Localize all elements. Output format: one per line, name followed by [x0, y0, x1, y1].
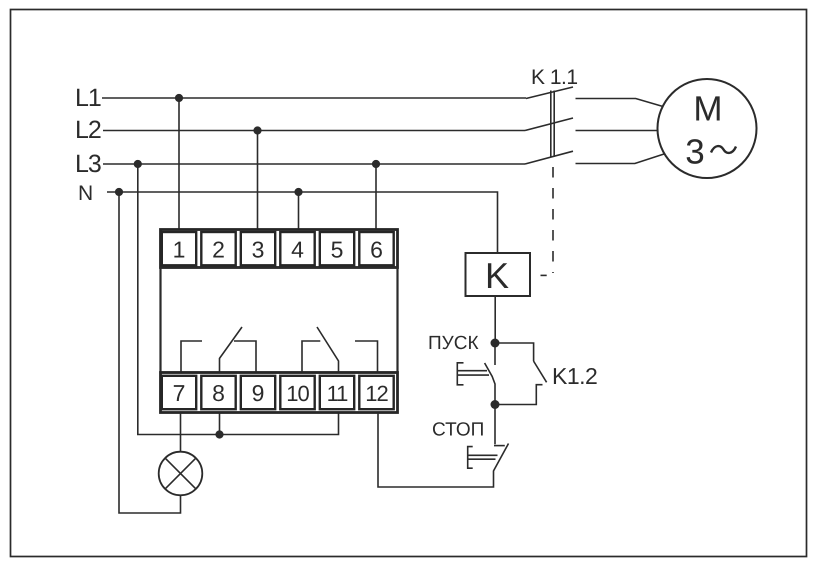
wire drop N to terminal 4	[298, 192, 300, 229]
svg-text:10: 10	[286, 381, 309, 406]
relay contact arm terminal 11	[317, 327, 339, 372]
button START plunger lines	[457, 371, 489, 375]
svg-text:K 1.1: K 1.1	[531, 66, 578, 89]
terminal 12	[359, 376, 393, 409]
relay terminal row top box	[161, 230, 398, 268]
wire L2 to motor	[576, 130, 658, 132]
relay contact arm terminal 8	[220, 327, 243, 372]
button STOP cap bracket	[468, 447, 473, 469]
wire terminal 12 to stop button	[378, 413, 494, 487]
terminal 7	[162, 376, 196, 409]
node junction dot terminal 8 bus	[215, 430, 223, 438]
relay contact bracket terminal 9	[234, 341, 256, 372]
wire L3 to motor	[576, 154, 665, 164]
svg-text:1: 1	[173, 237, 186, 263]
svg-text:4: 4	[291, 237, 304, 263]
terminal 4	[280, 232, 314, 265]
button START cap bracket	[457, 363, 463, 385]
svg-text:L3: L3	[75, 150, 101, 178]
svg-text:СТОП: СТОП	[432, 420, 484, 441]
svg-text:N: N	[78, 182, 93, 205]
svg-text:3: 3	[252, 237, 265, 263]
contact K1.1 link dashed to coil	[552, 167, 554, 273]
svg-text:2: 2	[212, 237, 225, 263]
relay contact bracket terminal 10	[302, 341, 320, 372]
coil K box	[466, 253, 531, 296]
dashed link horizontal dash at coil	[541, 274, 547, 276]
contact K1.1 mechanical link bars	[551, 91, 554, 157]
svg-text:8: 8	[212, 380, 225, 406]
relay contact bracket terminal 7	[181, 341, 202, 372]
wire L3 left branch down to terminal 11	[138, 164, 339, 435]
svg-text:ПУСК: ПУСК	[428, 333, 479, 354]
wire L1 to motor	[576, 99, 664, 107]
svg-text:K: K	[485, 255, 509, 296]
svg-text:5: 5	[331, 237, 344, 263]
wire drop L3 to terminal 6	[375, 164, 377, 229]
terminal 9	[241, 376, 275, 409]
node junction dot L3 left	[134, 160, 142, 168]
button START upper lead	[494, 343, 496, 365]
wire drop L1 to terminal 1	[178, 98, 180, 229]
wire N rail to coil K	[107, 192, 498, 253]
svg-text:M: M	[693, 89, 722, 128]
contact K1.1 pole L1 arm	[526, 87, 573, 99]
wire L1 rail	[102, 97, 526, 99]
node start-button bottom junction	[491, 400, 500, 409]
node junction dot N/terminal4	[294, 188, 302, 196]
relay terminal row bottom box	[161, 373, 398, 413]
svg-text:7: 7	[173, 380, 186, 406]
terminal 8	[201, 376, 235, 409]
button STOP plunger lines	[468, 455, 498, 459]
terminal 10	[280, 376, 314, 409]
wire terminal 7 to lamp	[180, 413, 182, 452]
contact K1.2 lower lead	[495, 385, 543, 405]
svg-text:3: 3	[685, 133, 704, 172]
contact K1.1 pole L3 arm	[525, 151, 573, 164]
terminal 5	[320, 232, 354, 265]
node junction dot L2/terminal3	[253, 126, 261, 134]
button STOP fixed contact seat	[494, 445, 505, 447]
svg-text:L2: L2	[75, 116, 101, 144]
motor M 3~	[658, 79, 757, 178]
terminal 3	[241, 232, 275, 265]
terminal 2	[201, 232, 235, 265]
wire K1.2 branch top	[495, 343, 534, 361]
terminal 11	[320, 376, 354, 409]
svg-text:L1: L1	[75, 84, 101, 112]
contact K1.2 arm	[534, 361, 547, 382]
node junction dot L3/terminal6	[372, 160, 380, 168]
contact K1.1 pole L2 arm	[525, 118, 573, 131]
wire L2 rail	[103, 130, 525, 132]
terminal 1	[162, 232, 196, 265]
wire L3 rail	[103, 163, 525, 165]
svg-text:12: 12	[365, 381, 388, 406]
button STOP moving arm	[494, 444, 509, 471]
wire start to stop	[494, 405, 496, 445]
lamp HL	[159, 452, 203, 496]
svg-text:6: 6	[370, 237, 383, 263]
node junction dot L1/terminal1	[175, 94, 183, 102]
wire coil K to start node	[494, 296, 496, 343]
wire drop L2 to terminal 3	[257, 131, 259, 230]
wire N left branch to lamp bottom	[119, 192, 181, 513]
svg-text:K1.2: K1.2	[552, 363, 597, 389]
terminal 6	[359, 232, 393, 265]
relay contact bracket terminal 12	[355, 341, 378, 372]
svg-text:11: 11	[327, 381, 349, 406]
node junction dot N left	[115, 188, 123, 196]
node start-button top junction	[491, 339, 500, 348]
wire terminal 8 drop to bottom bus	[219, 413, 221, 435]
svg-text:9: 9	[252, 380, 265, 406]
relay body outline	[161, 268, 398, 373]
button START moving arm and lower lead	[485, 363, 495, 405]
